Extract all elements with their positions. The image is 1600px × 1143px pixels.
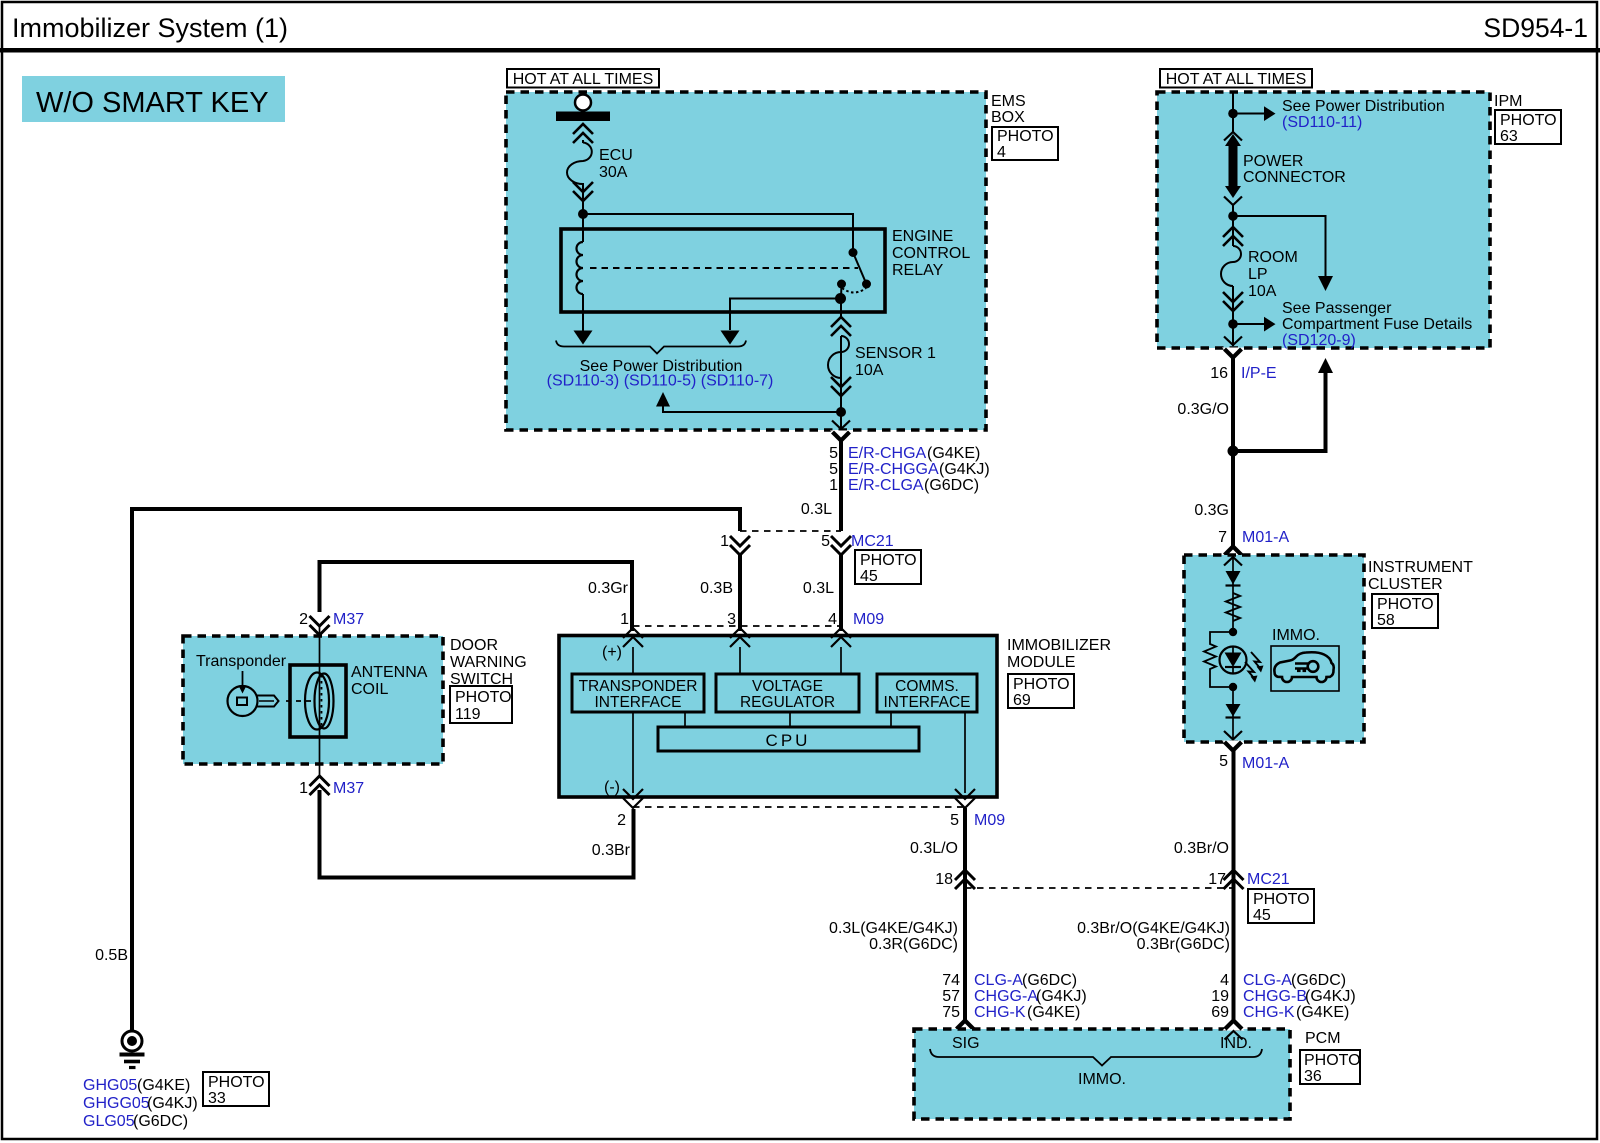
svg-text:119: 119 [455,706,481,723]
relay coil [577,214,583,332]
wire branch to passenger fuse arrow [1233,216,1333,291]
wire regulator to CPU [789,712,791,727]
label HOT AT ALL TIMES (left) [507,69,659,88]
svg-text:EMS: EMS [991,93,1026,110]
svg-text:IMMO.: IMMO. [1078,1071,1126,1088]
label PHOTO 45 (MC21 top) [855,550,921,585]
wire comms to CPU [890,712,892,727]
svg-text:45: 45 [1253,907,1271,924]
svg-text:Immobilizer System (1): Immobilizer System (1) [12,13,288,43]
svg-text:PHOTO: PHOTO [208,1074,265,1091]
svg-text:INTERFACE: INTERFACE [595,694,682,711]
connector chevrons above fuse SENSOR 1 [831,317,851,336]
entry chevrons pin 3 [730,628,750,647]
wire relay to sensor fuse [840,298,842,318]
wire 0.3L from EMS [839,439,843,531]
svg-text:HOT AT ALL TIMES: HOT AT ALL TIMES [513,71,654,88]
svg-text:M09: M09 [853,611,884,628]
svg-text:0.3R(G6DC): 0.3R(G6DC) [869,936,958,953]
svg-text:RELAY: RELAY [892,262,944,279]
svg-text:7: 7 [1218,529,1227,546]
connector POWER CONNECTOR [1224,132,1242,205]
wire 0.3L/O [963,808,967,888]
pin labels M09 top [620,611,884,628]
svg-text:COIL: COIL [351,681,388,698]
svg-text:0.3Br(G6DC): 0.3Br(G6DC) [1137,936,1230,953]
wire transponder to pin 2 [632,712,634,793]
svg-text:0.3G: 0.3G [1194,502,1229,519]
svg-text:PHOTO: PHOTO [1500,112,1557,129]
antenna coil box [290,665,346,737]
wire branch arrow up to IPM [1233,358,1333,451]
brace IMMO. [930,1049,1262,1066]
module IPM enclosure [1157,92,1490,348]
svg-text:PHOTO: PHOTO [860,552,917,569]
connector chevrons below battery [573,124,593,143]
svg-text:(SD110-11): (SD110-11) [1282,114,1362,131]
resistor (series) [1226,593,1240,621]
wire [1232,291,1234,346]
svg-text:(G4KE): (G4KE) [1027,1004,1080,1021]
svg-text:M01-A: M01-A [1242,755,1289,772]
svg-text:(G4KE): (G4KE) [1296,1004,1349,1021]
battery feed terminal [556,95,610,122]
arrow transponder [239,671,246,694]
module IMMOBILIZER MODULE box [559,636,997,798]
header divider [0,48,1600,53]
label PHOTO 69 [1008,674,1074,709]
svg-text:LP: LP [1248,266,1268,283]
svg-text:16: 16 [1210,365,1228,382]
label PHOTO 58 [1372,594,1438,629]
svg-text:W/O SMART KEY: W/O SMART KEY [36,87,269,119]
MC21 mating dashed line [740,530,841,532]
svg-text:PHOTO: PHOTO [1304,1052,1361,1069]
svg-text:1: 1 [620,611,629,628]
svg-text:M09: M09 [974,812,1005,829]
svg-text:TRANSPONDER: TRANSPONDER [579,678,698,695]
diode symbol top [1226,571,1241,586]
svg-text:0.3B: 0.3B [700,580,733,597]
coil lens icon [305,673,334,730]
IPM border crossing marker [1222,348,1244,359]
svg-text:(G4KJ): (G4KJ) [1036,988,1087,1005]
svg-text:See Passenger: See Passenger [1282,300,1392,317]
svg-text:M37: M37 [333,780,364,797]
connector MC21 pin 1 [730,536,750,555]
diode symbol bottom [1226,704,1241,718]
svg-text:18: 18 [935,871,953,888]
wire pin4 to voltage regulator [840,647,842,674]
label INSTRUMENT CLUSTER [1368,559,1473,593]
indicator icon box (car with key) [1271,646,1339,691]
label PHOTO 33 [203,1072,269,1107]
svg-text:E/R-CHGGA: E/R-CHGGA [848,461,939,478]
svg-text:IPM: IPM [1494,93,1522,110]
svg-text:(SD120-9): (SD120-9) [1282,332,1356,349]
svg-text:M37: M37 [333,611,364,628]
wire [1232,687,1234,740]
svg-text:2: 2 [617,812,626,829]
svg-text:5: 5 [829,445,838,462]
module ANTENNA COIL enclosure [183,636,443,764]
wire ground run (0.5B) [132,509,740,1031]
svg-text:(G6DC): (G6DC) [1022,972,1077,989]
svg-text:0.3Br/O: 0.3Br/O [1174,840,1229,857]
entry chevrons pin 4 [831,628,851,647]
label PHOTO 63 [1495,110,1561,145]
arrow to power distribution (contact) [721,331,740,345]
block CPU [658,727,919,751]
connector M37 pin 1 [310,776,330,795]
entry chevrons pin 1 [623,628,643,647]
svg-text:CHG-K: CHG-K [974,1004,1026,1021]
svg-text:36: 36 [1304,1068,1322,1085]
svg-text:(G4KJ): (G4KJ) [1305,988,1356,1005]
svg-text:19: 19 [1211,988,1229,1005]
block COMMS. INTERFACE [877,674,977,712]
svg-text:0.5B: 0.5B [95,947,128,964]
svg-text:(SD110-3) (SD110-5) (SD110-7): (SD110-3) (SD110-5) (SD110-7) [547,373,774,390]
svg-text:(G6DC): (G6DC) [133,1113,188,1130]
connector chevrons below fuse ROOM LP [1223,292,1243,311]
wire 0.3G/O [1231,356,1235,547]
entry chevron inside cluster [1224,557,1242,566]
W/O SMART KEY label [22,76,285,122]
svg-text:0.3L/O: 0.3L/O [910,840,958,857]
svg-text:Transponder: Transponder [196,653,287,670]
svg-text:58: 58 [1377,612,1395,629]
connector chevrons below fuse [573,182,593,201]
svg-text:0.3Br: 0.3Br [592,842,631,859]
wire [582,140,584,143]
svg-text:1: 1 [299,780,308,797]
label PHOTO 45 (MC21 bottom) [1248,889,1314,924]
svg-text:MODULE: MODULE [1007,654,1075,671]
svg-text:(G6DC): (G6DC) [924,477,979,494]
svg-text:4: 4 [997,144,1006,161]
label PHOTO 119 [450,686,512,723]
svg-text:CLG-A: CLG-A [1243,972,1292,989]
svg-text:ECU: ECU [599,147,633,164]
node LED top junction [1229,628,1237,636]
relay switch [837,248,871,298]
relay actuation dashed link [590,267,858,269]
module INSTRUMENT CLUSTER enclosure [1184,555,1364,742]
pin rows E/R connectors [829,445,990,494]
svg-text:(G4KJ): (G4KJ) [147,1095,198,1112]
brace under arrows [556,341,746,354]
svg-text:2: 2 [299,611,308,628]
svg-text:CLUSTER: CLUSTER [1368,576,1443,593]
exit chevron inside cluster [1224,731,1242,740]
label IMMOBILIZER MODULE [1007,637,1111,671]
light emission arrows [1245,652,1264,683]
svg-text:CHG-K: CHG-K [1243,1004,1295,1021]
dashed link key to coil [286,700,312,702]
svg-text:COMMS.: COMMS. [895,678,959,695]
svg-text:(G4KE): (G4KE) [927,445,980,462]
svg-text:ROOM: ROOM [1248,249,1298,266]
svg-text:57: 57 [942,988,960,1005]
fuse SENSOR 1 10A [828,336,849,378]
svg-text:CONTROL: CONTROL [892,245,970,262]
parallel resistor [1204,632,1233,687]
svg-text:E/R-CLGA: E/R-CLGA [848,477,924,494]
svg-text:ENGINE: ENGINE [892,228,953,245]
node sensor junction [836,407,846,417]
fuse ECU 30A [567,143,592,185]
node 0.3G/O junction [1228,446,1239,457]
arrow to power distribution (coil) [574,331,593,345]
svg-text:4: 4 [828,611,837,628]
wire 0.3Br to PCM [1232,888,1236,1020]
label PHOTO 36 [1300,1050,1361,1085]
module PCM enclosure [914,1029,1290,1119]
LED lamp [1220,647,1247,674]
wire [1232,205,1234,246]
IPM exit chevron [1224,337,1242,346]
svg-text:CHGG-B: CHGG-B [1243,988,1307,1005]
node EMS junction [578,209,588,219]
label ANTENNA COIL [351,664,428,698]
node LED bottom junction [1229,683,1237,691]
wire pin3 to voltage regulator [739,647,741,674]
svg-text:M01-A: M01-A [1242,529,1289,546]
arrow up from sensor feed [656,392,841,412]
svg-text:Compartment Fuse Details: Compartment Fuse Details [1282,316,1472,333]
svg-text:17: 17 [1208,871,1226,888]
svg-text:CHGG-A: CHGG-A [974,988,1038,1005]
ground symbol [120,1031,145,1068]
wire [582,196,584,214]
node IPM lower junction [1228,319,1238,329]
svg-text:0.3L(G4KE/G4KJ): 0.3L(G4KE/G4KJ) [829,920,958,937]
svg-text:1: 1 [720,533,729,550]
wire 0.3B [738,555,742,631]
label EMS BOX [991,93,1026,126]
connector M37 pin 2 [310,616,330,635]
svg-text:0.3Br/O(G4KE/G4KJ): 0.3Br/O(G4KE/G4KJ) [1077,920,1230,937]
svg-text:0.3L: 0.3L [803,580,834,597]
svg-text:IMMOBILIZER: IMMOBILIZER [1007,637,1111,654]
cluster entry marker [1222,546,1244,557]
wire transponder to CPU [684,712,686,727]
fuse ROOM LP 10A [1221,246,1241,286]
svg-text:63: 63 [1500,128,1518,145]
svg-text:PHOTO: PHOTO [1253,891,1310,908]
svg-text:INTERFACE: INTERFACE [884,694,971,711]
svg-text:ANTENNA: ANTENNA [351,664,428,681]
svg-text:REGULATOR: REGULATOR [740,694,835,711]
svg-text:1: 1 [829,477,838,494]
label PHOTO 4 [992,127,1058,161]
svg-text:5: 5 [1219,753,1228,770]
svg-text:5: 5 [821,533,830,550]
svg-text:(-): (-) [604,779,620,796]
MC21 bottom mating dashed line [965,887,1234,889]
wire pin1 to transponder interface [632,647,634,674]
svg-text:(+): (+) [602,644,622,661]
cluster exit marker [1222,741,1244,752]
connector MC21 pin 18 [955,870,975,889]
pin label 5 M01-A [1219,753,1289,772]
wire through coil [319,627,321,778]
svg-text:PHOTO: PHOTO [1013,676,1070,693]
exit chevrons pin 5 [955,789,975,808]
svg-text:3: 3 [727,611,736,628]
svg-text:IND.: IND. [1220,1035,1252,1052]
svg-text:MC21: MC21 [851,533,894,550]
svg-text:See Power Distribution: See Power Distribution [1282,98,1445,115]
svg-text:5: 5 [950,812,959,829]
transponder key icon [228,686,279,716]
svg-text:GHGG05: GHGG05 [83,1095,150,1112]
exit chevrons pin 2 [623,789,643,808]
svg-text:10A: 10A [1248,283,1277,300]
arrow See Passenger Compartment Fuse Details [1233,317,1276,332]
relay ENGINE CONTROL RELAY box [561,229,885,312]
label HOT AT ALL TIMES (right) [1160,69,1312,88]
label DOOR WARNING SWITCH [450,637,527,688]
wire 0.3L to module [839,555,843,631]
block VOLTAGE REGULATOR [716,674,859,712]
wire IPM feed [1232,92,1234,133]
PCM entry marker IND [1223,1020,1245,1031]
block TRANSPONDER INTERFACE [572,674,704,712]
connector chevrons below fuse SENSOR 1 [831,377,851,396]
EMS border crossing marker [830,431,852,442]
wire 0.3Br/O [1232,749,1236,888]
node relay output junction [835,293,846,304]
svg-text:DOOR: DOOR [450,637,498,654]
svg-text:69: 69 [1211,1004,1229,1021]
svg-text:0.3Gr: 0.3Gr [588,580,629,597]
svg-text:5: 5 [829,461,838,478]
PCM entry marker SIG [954,1020,976,1031]
wire 0.3L to PCM [963,888,967,1020]
svg-text:IMMO.: IMMO. [1272,627,1320,644]
svg-text:30A: 30A [599,164,628,181]
module EMS BOX enclosure [506,92,986,430]
svg-text:SENSOR 1: SENSOR 1 [855,345,936,362]
ground labels GHG05/GHGG05/GLG05 [83,1077,198,1130]
wire [1232,556,1234,632]
EMS exit arrow [832,421,850,430]
svg-text:45: 45 [860,568,878,585]
wire to relay switch [583,214,853,252]
pin rows PCM SIG [942,972,1086,1021]
wire relay output branch [730,299,841,331]
svg-text:74: 74 [942,972,960,989]
M09 top mating dashed line [633,625,841,627]
svg-text:4: 4 [1220,972,1229,989]
wire comms to pin 5 [964,712,966,793]
svg-text:(G4KJ): (G4KJ) [939,461,990,478]
svg-text:CONNECTOR: CONNECTOR [1243,169,1346,186]
svg-text:SIG: SIG [952,1035,980,1052]
wire 0.3Br return [320,790,634,878]
pin label 16 I/P-E [1210,365,1276,382]
connector chevrons above fuse ROOM LP [1223,227,1243,246]
svg-text:CPU: CPU [766,731,811,750]
pin label 7 M01-A [1218,529,1289,546]
connector MC21 pin 5 [831,536,851,555]
svg-text:MC21: MC21 [1247,871,1290,888]
svg-text:69: 69 [1013,692,1031,709]
M09 bottom mating dashed line [633,806,965,808]
svg-text:PHOTO: PHOTO [1377,596,1434,613]
svg-text:SD954-1: SD954-1 [1483,13,1588,43]
arrow See Power Distribution (SD110-11) [1233,106,1276,121]
svg-text:E/R-CHGA: E/R-CHGA [848,445,927,462]
wire antenna feed 0.3Gr [320,562,633,631]
svg-text:0.3L: 0.3L [801,501,832,518]
svg-text:HOT AT ALL TIMES: HOT AT ALL TIMES [1166,71,1307,88]
svg-text:GLG05: GLG05 [83,1113,135,1130]
svg-text:75: 75 [942,1004,960,1021]
svg-text:CLG-A: CLG-A [974,972,1023,989]
connector MC21 pin 17 [1224,870,1244,889]
pin labels M09 bottom [617,812,1005,829]
svg-text:INSTRUMENT: INSTRUMENT [1368,559,1473,576]
svg-text:10A: 10A [855,362,884,379]
svg-text:BOX: BOX [991,109,1025,126]
svg-text:0.3G/O: 0.3G/O [1177,401,1229,418]
svg-text:PHOTO: PHOTO [455,689,512,706]
svg-text:POWER: POWER [1243,153,1303,170]
svg-text:(G4KE): (G4KE) [137,1077,190,1094]
node IPM top junction [1228,109,1238,119]
svg-text:PCM: PCM [1305,1030,1341,1047]
svg-text:VOLTAGE: VOLTAGE [752,678,823,695]
pin rows PCM IND [1211,972,1355,1021]
wire to EMS exit [840,336,842,428]
node IPM mid junction [1228,211,1238,221]
svg-text:33: 33 [208,1090,226,1107]
svg-text:I/P-E: I/P-E [1241,365,1277,382]
svg-text:WARNING: WARNING [450,654,527,671]
svg-text:(G6DC): (G6DC) [1291,972,1346,989]
svg-text:GHG05: GHG05 [83,1077,137,1094]
svg-text:PHOTO: PHOTO [997,128,1054,145]
